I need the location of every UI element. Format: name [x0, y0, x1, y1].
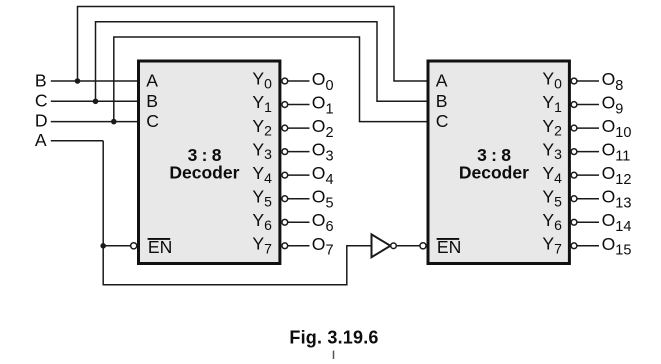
U1 Y5 bubble [282, 196, 288, 202]
wire U2-C drop vertical [359, 36, 361, 121]
wire D riser vertical [113, 37, 115, 122]
U1 Y0 bubble [282, 78, 288, 84]
U1 Y2 bubble [282, 125, 288, 131]
wire input A horizontal [51, 140, 103, 142]
U2 Y7 bubble [571, 243, 577, 249]
U2 Y3 bubble [571, 149, 577, 155]
wire into U2 pin B [376, 100, 426, 102]
svg-text:A: A [146, 71, 158, 91]
wire U2 Y3 to O11 [577, 151, 599, 153]
wire U2 Y7 to O15 [577, 245, 599, 247]
wire top B to U2-A horizontal [77, 6, 394, 8]
U1 Y3 bubble [282, 149, 288, 155]
wire U1 Y2 to O2 [288, 127, 310, 129]
svg-text:Decoder: Decoder [459, 163, 529, 183]
svg-text:C: C [146, 111, 159, 131]
U2 Y5 bubble [571, 196, 577, 202]
svg-text:D: D [35, 111, 48, 131]
wire U2 Y2 to O10 [577, 127, 599, 129]
svg-text:B: B [146, 91, 158, 111]
decoder U1 box [139, 61, 280, 264]
wire input D horizontal [51, 121, 137, 123]
inverter gate [372, 234, 391, 257]
wire U1 Y6 to O6 [288, 221, 310, 223]
wire U1 Y4 to O4 [288, 174, 310, 176]
wire U2-B drop vertical [376, 21, 378, 101]
svg-text:EN: EN [437, 237, 461, 257]
svg-text:Fig. 3.19.6: Fig. 3.19.6 [289, 327, 378, 347]
svg-text:B: B [436, 91, 448, 111]
U1 EN overline [148, 238, 171, 240]
svg-text:Decoder: Decoder [169, 163, 239, 183]
wire U2 Y0 to O8 [577, 80, 599, 82]
wire U1 Y0 to O0 [288, 80, 310, 82]
U1 Y7 bubble [282, 243, 288, 249]
junction D [111, 119, 117, 125]
svg-text:C: C [436, 111, 449, 131]
wire input C horizontal [51, 100, 137, 102]
U2 Y1 bubble [571, 102, 577, 108]
wire U2 Y5 to O13 [577, 198, 599, 200]
wire U2 Y6 to O14 [577, 221, 599, 223]
decoder U2 box [428, 61, 569, 264]
inverter bubble [391, 243, 397, 249]
U1 Y6 bubble [282, 219, 288, 225]
wire U1 Y3 to O3 [288, 151, 310, 153]
U1 EN bubble [131, 243, 137, 249]
wire U1 Y1 to O1 [288, 104, 310, 106]
U1 Y4 bubble [282, 172, 288, 178]
svg-text:C: C [35, 91, 48, 111]
wire C riser vertical [95, 22, 97, 102]
wire A bottom horizontal [103, 284, 347, 286]
cursor mark [333, 351, 335, 359]
wire U1 Y7 to O7 [288, 245, 310, 247]
svg-text:A: A [436, 71, 448, 91]
wire into U2 pin A [393, 80, 426, 82]
wire inverter to U2 EN [396, 245, 419, 247]
wire U2-A drop vertical [393, 6, 395, 81]
wire top C to U2-B horizontal [95, 21, 377, 23]
U2 Y0 bubble [571, 78, 577, 84]
wire U2 Y4 to O12 [577, 174, 599, 176]
wire B riser vertical [77, 7, 79, 82]
svg-text:EN: EN [148, 237, 172, 257]
wire input B horizontal [51, 80, 137, 82]
junction B [75, 78, 81, 84]
svg-text:B: B [35, 70, 47, 90]
U2 Y4 bubble [571, 172, 577, 178]
junction A-EN [100, 243, 106, 249]
wire U1 Y5 to O5 [288, 198, 310, 200]
wire top D to U2-C horizontal [113, 36, 359, 38]
wire into inverter horizontal [346, 245, 371, 247]
svg-text:A: A [35, 130, 47, 150]
wire into U2 pin C [359, 121, 427, 123]
wire up to inverter vertical [346, 246, 348, 286]
junction C [93, 99, 99, 105]
U2 EN bubble [420, 243, 426, 249]
wire U2 Y1 to O9 [577, 104, 599, 106]
wire U1 EN stub [103, 245, 130, 247]
U2 EN overline [437, 238, 460, 240]
U2 Y2 bubble [571, 125, 577, 131]
U2 Y6 bubble [571, 219, 577, 225]
U1 Y1 bubble [282, 102, 288, 108]
wire A down vertical [102, 141, 104, 285]
